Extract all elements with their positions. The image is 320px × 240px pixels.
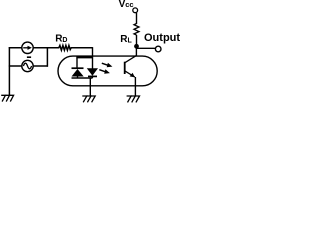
ground G2: [82, 96, 95, 102]
ground G1: [1, 95, 13, 101]
diode D1 (LED, pointing up): [72, 68, 84, 76]
wire: source loop top: [9, 47, 48, 49]
transistor Q1 collector: [125, 56, 137, 63]
svg-text:RL: RL: [120, 34, 132, 45]
wire: feed into LED anode (vertical): [92, 47, 94, 68]
transistor Q1 base bar: [124, 62, 126, 74]
resistor RD: [48, 45, 93, 50]
wire: stub down to D1 cathode: [76, 58, 78, 68]
Vcc terminal: [133, 8, 138, 13]
junction node: [134, 44, 139, 49]
wire: D2 cathode stub: [91, 76, 93, 78]
light arrow 1: [102, 63, 113, 67]
wire: source loop left rail: [8, 47, 10, 95]
AC source V1: [22, 60, 33, 71]
resistor RL: [134, 24, 139, 36]
wire: junction to output terminal: [137, 47, 156, 49]
wire: LED return down to ground: [89, 78, 91, 96]
wire: emitter drop to ground: [134, 77, 136, 96]
wire: Vcc to RL: [136, 13, 138, 24]
ground G3: [127, 96, 140, 102]
transistor Q1 emitter: [125, 71, 135, 77]
wire: D1 anode stub: [77, 76, 79, 78]
svg-text:Output: Output: [144, 32, 180, 44]
optocoupler package U1: [58, 56, 157, 86]
diode D2 (LED, pointing down): [87, 68, 98, 76]
wire: LED top rail: [76, 56, 92, 58]
wire: LED bottom rail: [72, 77, 93, 79]
output terminal: [155, 46, 161, 52]
light arrow 2: [99, 69, 110, 73]
current source I1: [22, 42, 33, 53]
polarity dash: [27, 56, 31, 58]
svg-text:Vcc: Vcc: [119, 0, 134, 10]
svg-text:RD: RD: [55, 34, 67, 45]
wire: RL to junction: [136, 35, 138, 47]
wire: collector riser: [135, 46, 137, 56]
wire: source loop right rail: [46, 47, 48, 67]
wire: source loop bottom: [9, 65, 48, 67]
transistor Q1 emitter arrowhead: [130, 73, 135, 78]
